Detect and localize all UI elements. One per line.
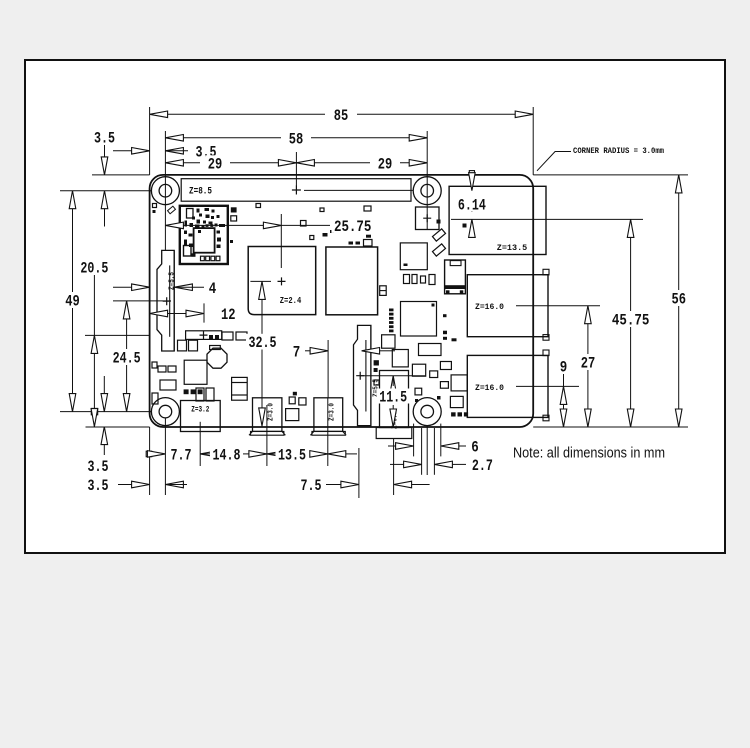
svg-text:13.5: 13.5 — [278, 447, 306, 465]
octagon inductor — [207, 348, 227, 368]
dim 14.8 — [200, 453, 218, 455]
dim 29 left — [165, 162, 200, 164]
svg-text:56: 56 — [671, 291, 686, 309]
dim 56 — [678, 175, 680, 290]
drawing sheet — [25, 60, 725, 553]
USB stack upper Z=16.0 — [467, 275, 548, 337]
extension SoC centre x — [280, 214, 282, 268]
extension camera centre — [360, 375, 426, 377]
SoC centre crossbar — [250, 280, 271, 282]
extension usb2 centre — [516, 385, 579, 387]
diamond parts near PoE — [432, 229, 445, 241]
extension board-top-left — [92, 174, 150, 176]
micro HDMI 0 Z=3.0 — [253, 398, 282, 432]
dim 20.5 — [78, 260, 111, 275]
dim 25.75 — [165, 224, 263, 226]
svg-text:Z=3.0: Z=3.0 — [268, 403, 276, 421]
svg-text:3.5: 3.5 — [88, 458, 109, 476]
extension hole-right down — [426, 426, 428, 475]
extension HDMI0 centre — [266, 405, 268, 466]
extension hole-top-left — [60, 190, 151, 192]
micro HDMI 1 Z=3.0 — [314, 398, 343, 432]
dim 29 right — [296, 162, 370, 164]
dim 12 (DSI offset) — [150, 313, 204, 315]
dim 3.5 bottom vertical — [103, 376, 105, 394]
svg-text:58: 58 — [289, 130, 304, 148]
tick pad dia left — [413, 424, 415, 457]
svg-text:14.8: 14.8 — [213, 447, 241, 465]
extension hole-left down — [164, 418, 166, 495]
mounting hole bottom-left — [151, 398, 179, 426]
svg-text:CORNER RADIUS = 3.0mm: CORNER RADIUS = 3.0mm — [573, 147, 664, 156]
SoC U1 Z=2.4 — [248, 247, 316, 315]
dim 3.5 bottom horizontal — [85, 477, 111, 492]
extension camera centre down — [358, 448, 360, 498]
extension board-top-right — [533, 174, 688, 176]
USB3 bridge part — [445, 260, 466, 294]
audio jack Z=6.0 — [380, 371, 409, 428]
extension hole-bottom-left — [60, 411, 151, 413]
CSI camera connector Z=5.5 — [354, 325, 371, 425]
header centreline to right hole — [304, 189, 413, 191]
svg-text:11.5: 11.5 — [379, 389, 407, 407]
svg-text:29: 29 — [378, 155, 393, 173]
dim 6.14 — [469, 171, 474, 176]
svg-text:7.5: 7.5 — [301, 477, 322, 495]
parts right of wireless module — [231, 207, 237, 212]
mounting hole top-left — [151, 177, 179, 205]
PoE header with + — [416, 207, 440, 230]
dim 7 (audio to camera) — [290, 343, 303, 358]
extension board-left down — [149, 427, 151, 495]
svg-text:29: 29 — [208, 155, 223, 173]
dotted stack right of RAM — [389, 309, 394, 312]
tick hole dia left — [421, 428, 423, 475]
tick pad dia right — [440, 424, 442, 457]
svg-text:2.7: 2.7 — [472, 457, 493, 475]
svg-text:85: 85 — [334, 107, 349, 125]
extension audio-jack centre upper — [327, 340, 329, 398]
PCB board outline 85x56 rounded corners — [150, 175, 534, 427]
dim 13.5 — [267, 451, 285, 458]
dim 49 — [72, 191, 74, 292]
svg-text:3.5: 3.5 — [94, 130, 115, 148]
extension DSI centre left — [85, 334, 150, 336]
corner radius note — [537, 152, 571, 171]
intersection tick 20.5/hole-line — [91, 408, 97, 414]
extension board-bottom-right — [533, 426, 688, 428]
Ethernet jack Z=13.5 — [449, 186, 546, 254]
svg-text:Z=13.5: Z=13.5 — [497, 243, 528, 253]
extension ethernet centre — [451, 218, 643, 220]
svg-text:Z=8.5: Z=8.5 — [189, 187, 212, 198]
dim 3.5 top horizontal — [113, 150, 132, 152]
svg-text:25.75: 25.75 — [334, 218, 372, 236]
dim 7.7 — [146, 451, 152, 457]
svg-text:4: 4 — [209, 280, 217, 298]
svg-text:27: 27 — [581, 355, 596, 373]
svg-text:Z=16.0: Z=16.0 — [475, 383, 504, 393]
USB stack lower Z=16.0 — [467, 355, 548, 417]
small SMD parts scatter — [153, 204, 157, 208]
extension board-bottom-left — [86, 426, 150, 428]
mounting hole bottom-right — [413, 398, 441, 426]
wireless module shield — [180, 206, 228, 264]
extension USB-C centre — [199, 422, 201, 466]
extension lines top — [149, 107, 151, 175]
dim 7.5 — [298, 477, 324, 492]
DSI centre tick — [203, 303, 205, 322]
svg-text:Z=3.2: Z=3.2 — [191, 406, 209, 415]
tick hole dia right — [433, 428, 435, 475]
svg-text:49: 49 — [65, 293, 80, 311]
GPIO header J8 Z=8.5 — [181, 179, 411, 202]
svg-text:7: 7 — [293, 343, 301, 361]
svg-text:Z=2.4: Z=2.4 — [280, 295, 302, 306]
USB-C power Z=3.2 — [181, 401, 221, 432]
extension usb1 centre — [516, 305, 600, 307]
extension SD centre left — [113, 300, 171, 302]
svg-text:Z=3.0: Z=3.0 — [329, 403, 337, 421]
DSI display connector — [186, 331, 222, 340]
svg-text:Z=16.0: Z=16.0 — [475, 302, 504, 312]
svg-text:45.75: 45.75 — [612, 312, 650, 330]
svg-text:20.5: 20.5 — [80, 260, 108, 278]
svg-text:Note: all dimensions in mm: Note: all dimensions in mm — [513, 445, 665, 462]
svg-text:6: 6 — [471, 439, 479, 457]
micro SD card slot Z=5.5 — [157, 250, 174, 351]
extension HDMI1 centre — [327, 398, 329, 466]
dim 45.75 — [630, 219, 632, 311]
dim 24.5 — [126, 301, 128, 349]
dim 85 top — [150, 113, 325, 115]
dim 9 — [557, 359, 570, 374]
dim 4 (SD offset) — [113, 286, 132, 288]
dim 3.5 top-left vertical — [92, 130, 118, 145]
svg-text:7.7: 7.7 — [171, 447, 192, 465]
dim 58 — [165, 137, 281, 139]
svg-text:3.5: 3.5 — [88, 477, 109, 495]
svg-text:9: 9 — [560, 359, 568, 377]
dim 27 — [587, 306, 589, 354]
extension audio centre down — [393, 439, 395, 496]
svg-text:32.5: 32.5 — [249, 334, 277, 352]
capacitor bands — [232, 382, 248, 384]
SDRAM chip — [326, 247, 378, 315]
mounting hole top-right — [413, 177, 441, 205]
svg-text:24.5: 24.5 — [113, 350, 141, 368]
svg-text:12: 12 — [221, 306, 236, 324]
svg-text:6.14: 6.14 — [458, 197, 486, 215]
